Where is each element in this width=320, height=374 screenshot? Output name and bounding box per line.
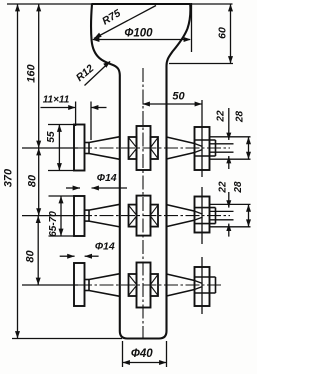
svg-text:28: 28 [235, 111, 246, 124]
svg-text:65-70: 65-70 [48, 211, 59, 237]
svg-text:Ф14: Ф14 [97, 172, 117, 184]
svg-text:80: 80 [27, 174, 39, 187]
svg-text:Ф40: Ф40 [131, 348, 153, 360]
svg-text:11×11: 11×11 [43, 95, 70, 106]
svg-text:370: 370 [3, 168, 15, 187]
svg-text:22: 22 [218, 181, 229, 194]
svg-text:28: 28 [233, 181, 244, 194]
svg-text:60: 60 [217, 27, 229, 39]
svg-text:55: 55 [46, 131, 57, 143]
svg-text:Ф14: Ф14 [95, 241, 115, 253]
svg-text:Ф100: Ф100 [124, 28, 153, 40]
svg-text:160: 160 [26, 63, 38, 82]
svg-text:22: 22 [216, 110, 227, 123]
svg-text:80: 80 [25, 250, 37, 263]
svg-text:50: 50 [172, 91, 185, 103]
